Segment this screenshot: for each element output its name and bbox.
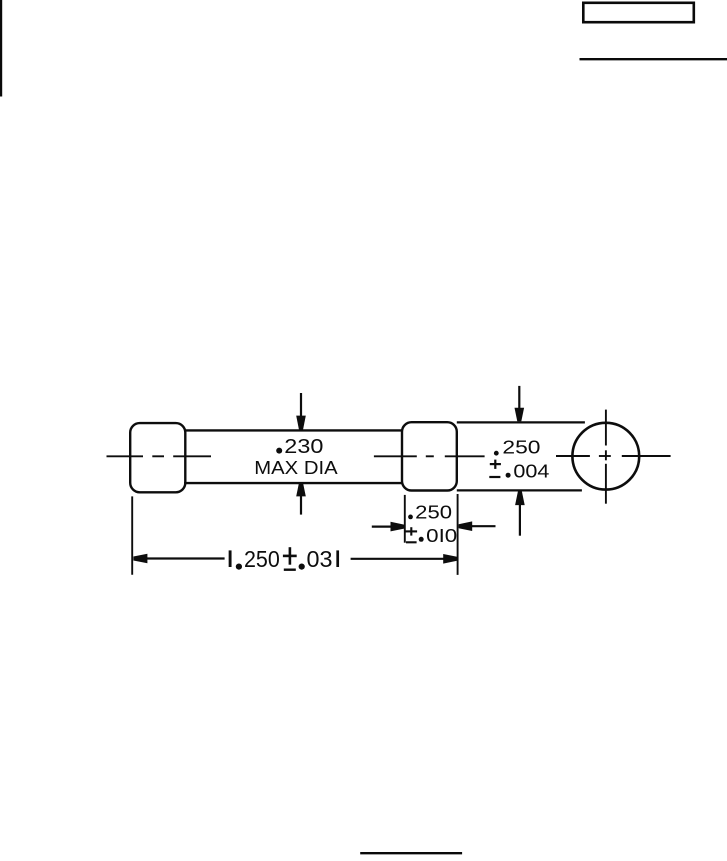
dim 1.250±.031 left arrow <box>133 554 224 564</box>
svg-text:250: 250 <box>244 546 280 572</box>
dim 1.250±.031 right arrow <box>351 554 457 564</box>
dim text .230 <box>276 436 323 458</box>
dim .230 top arrow <box>296 393 306 430</box>
ferrule OD extension line top <box>457 421 585 423</box>
dim text ±.004 <box>489 460 549 482</box>
end view circle <box>572 423 639 490</box>
extension line left of .250±.010 <box>404 495 406 543</box>
dim .250±.004 top arrow <box>515 386 525 422</box>
vertical centerline of end view circle <box>605 410 607 504</box>
horizontal centerline <box>107 455 671 457</box>
dim .250±.010 right arrow <box>459 521 496 531</box>
right end cap <box>402 422 457 490</box>
dim .250±.010 left arrow <box>372 522 404 532</box>
fuse body top line <box>184 429 402 431</box>
svg-text:03: 03 <box>307 546 333 572</box>
svg-text:MAX DIA: MAX DIA <box>254 457 338 478</box>
title box top-right <box>583 3 694 22</box>
dim text ±.010 <box>406 525 458 546</box>
dim text 1.250±.031 <box>230 546 338 572</box>
header rule top-right <box>580 58 727 60</box>
dim text .250 (±.010) <box>408 501 452 522</box>
footer page rule <box>360 852 462 854</box>
dim .250±.004 bottom arrow <box>515 492 525 536</box>
svg-text:250: 250 <box>502 437 540 458</box>
dim .230 bottom arrow <box>296 483 306 515</box>
ferrule OD extension line bottom <box>457 489 582 491</box>
page edge bar top-left <box>0 0 2 97</box>
extension line left of 1.250±.031 <box>131 496 133 574</box>
svg-text:004: 004 <box>513 461 549 482</box>
svg-text:0I0: 0I0 <box>426 525 457 546</box>
svg-text:250: 250 <box>415 501 452 522</box>
left end cap <box>130 423 185 492</box>
svg-text:230: 230 <box>284 436 323 458</box>
extension line right (shared) <box>457 494 459 575</box>
fuse body bottom line <box>184 482 402 484</box>
dim text .250 (±.004) <box>494 437 541 458</box>
